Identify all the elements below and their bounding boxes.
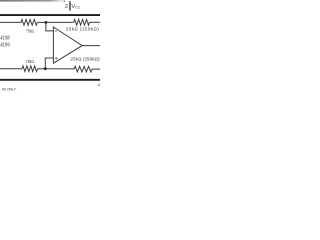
wire: node down to inverting input xyxy=(46,22,53,31)
wire: bottom node up to non-inverting input xyxy=(45,58,53,69)
thick package boundary line (bottom) xyxy=(0,79,100,81)
speck at end of cropped rule xyxy=(64,0,66,2)
resistor R4 25kOhm/250kOhm (bottom right) xyxy=(74,66,92,72)
node: non-inverting junction dot xyxy=(44,67,47,70)
Vcc pin stub wire xyxy=(69,1,71,10)
svg-text:75kΩ: 75kΩ xyxy=(26,29,34,34)
minus sign (inverting input) xyxy=(55,30,57,32)
wire: top input rail left segment xyxy=(0,21,21,23)
wire: between R3 and bottom node xyxy=(38,68,74,70)
svg-text:2: 2 xyxy=(65,4,68,10)
thick package boundary line (top) xyxy=(0,14,100,16)
svg-text:75kΩ: 75kΩ xyxy=(26,59,34,64)
resistor R3 75kOhm (bottom left) xyxy=(22,66,38,72)
plus sign (non-inverting input) xyxy=(55,57,57,59)
svg-text:4: 4 xyxy=(98,83,100,88)
resistor R2 25kOhm/250kOhm (top right feedback) xyxy=(74,19,90,25)
wire: R2 to right edge xyxy=(90,21,101,23)
svg-text:25kΩ (250kΩ): 25kΩ (250kΩ) xyxy=(70,57,100,62)
svg-text:4199: 4199 xyxy=(0,43,9,49)
svg-text:4198: 4198 xyxy=(0,36,9,42)
cropped top rule (fading gray line) xyxy=(0,0,66,2)
svg-text:99 ONLY.: 99 ONLY. xyxy=(2,87,17,92)
resistor R1 75kOhm (top left) xyxy=(21,20,37,26)
wire: R4 to right edge xyxy=(92,68,100,70)
node: summing junction dot (inverting input) xyxy=(44,21,47,24)
wire: between R1 and summing node xyxy=(37,21,73,23)
wire: bottom input rail left segment xyxy=(0,68,22,70)
op-amp U1 triangle xyxy=(53,27,82,63)
wire: op-amp output xyxy=(82,45,100,47)
svg-text:VCC: VCC xyxy=(71,4,80,10)
svg-text:25kΩ (250kΩ): 25kΩ (250kΩ) xyxy=(66,27,100,32)
